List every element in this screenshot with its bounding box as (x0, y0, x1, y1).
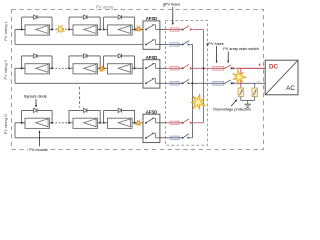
svg-text:−: − (258, 79, 261, 84)
svg-text:AC: AC (286, 85, 295, 92)
svg-text:+: + (258, 62, 261, 68)
svg-text:AFSD: AFSD (146, 55, 157, 60)
svg-text:PV string N: PV string N (3, 114, 8, 134)
svg-text:gPV fuses: gPV fuses (163, 2, 180, 6)
svg-text:DC: DC (269, 63, 279, 70)
svg-text:PV string 2: PV string 2 (3, 59, 8, 79)
svg-text:Overvoltage protection: Overvoltage protection (213, 108, 251, 112)
svg-text:PV module: PV module (29, 148, 48, 152)
svg-text:PV array: PV array (96, 5, 115, 10)
svg-text:PV array main switch: PV array main switch (223, 47, 259, 51)
svg-text:Bypass diode: Bypass diode (24, 94, 47, 98)
svg-text:PV string 1: PV string 1 (3, 20, 8, 40)
svg-text:AFSD: AFSD (146, 109, 157, 114)
svg-text:gPV fuses: gPV fuses (206, 42, 223, 46)
svg-text:AFSD: AFSD (146, 16, 157, 21)
